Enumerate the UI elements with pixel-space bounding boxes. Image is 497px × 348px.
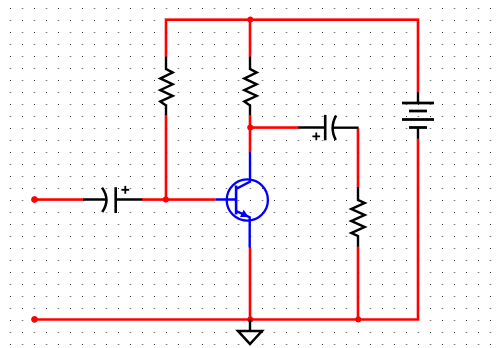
- wire bottom bus with battery riser: [35, 139, 419, 320]
- node collector branch junction: [247, 124, 253, 130]
- wire R1 bottom to base junction: [165, 115, 168, 200]
- wire R3 to bottom bus: [357, 247, 360, 320]
- wire C1 to transistor base: [142, 198, 215, 201]
- transistor Q1: [216, 152, 268, 247]
- wire emitter to bottom bus: [249, 247, 252, 319]
- node bottom-left terminal: [31, 316, 38, 323]
- wire branch to C2: [250, 126, 299, 129]
- wire R2 bottom to collector: [249, 115, 252, 153]
- wire top bus with left and right risers: [166, 20, 418, 93]
- wire top bus to R2: [249, 20, 252, 57]
- resistor R2: [244, 57, 256, 116]
- capacitor C1: [83, 186, 142, 213]
- ground: [238, 319, 262, 344]
- resistor R1: [160, 57, 172, 116]
- wire C2 down to R3: [357, 129, 360, 188]
- resistor R3: [351, 187, 364, 247]
- wire input terminal to C1: [35, 198, 85, 201]
- node ground junction: [247, 316, 253, 322]
- node R3 bottom junction: [355, 316, 361, 322]
- node input terminal: [31, 196, 38, 203]
- node top bus junction: [247, 17, 253, 23]
- battery B1: [402, 92, 434, 138]
- node base junction: [163, 196, 169, 202]
- capacitor C2: [299, 115, 359, 140]
